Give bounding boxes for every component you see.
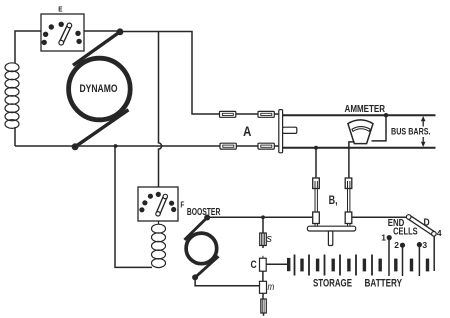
- fuse on bottom feeder 1: [220, 143, 236, 149]
- svg-text:C: C: [251, 259, 257, 271]
- wire from top-left corner to field rheostat E: [15, 31, 41, 63]
- storage battery: [289, 255, 428, 276]
- end cell tap 4: [433, 236, 435, 271]
- wire fuse C to storage battery: [266, 263, 288, 265]
- booster feeder wire right segment to end-cell switch: [352, 216, 406, 218]
- fuse B left lower: [313, 212, 320, 226]
- svg-text:BUS BARS.: BUS BARS.: [391, 127, 431, 137]
- wire top run: junction to corner, down and right to switch A: [120, 32, 282, 115]
- booster top brush: [184, 218, 207, 240]
- field coil (dynamo shunt field): [5, 63, 19, 129]
- fuse on bottom feeder 2: [258, 143, 274, 149]
- svg-text:m: m: [268, 282, 275, 293]
- svg-text:2: 2: [394, 240, 399, 250]
- wire booster to fuse m: [195, 277, 259, 285]
- wire booster coil return to bottom main wire: [115, 146, 152, 267]
- field rheostat E: [41, 14, 84, 51]
- booster rheostat F: [138, 187, 178, 221]
- wire to booster rheostat with hop over bottom main wire: [159, 32, 162, 188]
- svg-text:A: A: [243, 124, 251, 139]
- end cell tap 1: [387, 235, 392, 276]
- svg-text:AMMETER: AMMETER: [345, 104, 386, 115]
- svg-text:D: D: [424, 217, 430, 228]
- svg-text:3: 3: [422, 240, 427, 250]
- svg-text:4: 4: [437, 228, 442, 238]
- knife switch A bar: [279, 110, 297, 153]
- booster feeder wire left segment: [207, 215, 313, 219]
- fuse on top feeder 1: [220, 111, 236, 117]
- wire ammeter to battery switch (crosses bottom bus): [349, 142, 355, 178]
- svg-text:B,: B,: [329, 195, 338, 207]
- fuse on top feeder 2: [258, 111, 274, 117]
- junction dot dynamo bottom: [72, 143, 79, 150]
- end cell tap 3: [417, 242, 422, 276]
- wire rheostat E to dynamo top junction: [84, 30, 120, 32]
- top bus bar: [282, 114, 436, 116]
- switch B crossbar: [307, 226, 355, 245]
- svg-text:s: s: [266, 233, 272, 245]
- bottom main wire: [15, 145, 282, 147]
- junction dot dynamo top: [117, 28, 124, 35]
- wire bottom bus to switch B left column: [314, 146, 318, 178]
- fuse B right upper: [345, 178, 352, 212]
- fuse B left upper: [313, 178, 320, 212]
- end cell tap 2: [400, 243, 405, 276]
- ammeter: [348, 120, 373, 144]
- svg-text:DYNAMO: DYNAMO: [80, 83, 118, 95]
- junction dot booster bottom: [192, 274, 198, 280]
- junction node at booster branch: [114, 144, 118, 148]
- booster bottom brush: [195, 256, 218, 277]
- svg-text:BOOSTER: BOOSTER: [187, 207, 221, 218]
- dynamo bottom brush: [75, 110, 128, 147]
- fuse s (hanging): [260, 217, 267, 248]
- bottom bus bar: [282, 147, 436, 149]
- svg-text:BATTERY: BATTERY: [365, 277, 403, 289]
- dynamo armature: [69, 58, 131, 120]
- junction dot booster top: [204, 215, 210, 221]
- spare fuse at bottom: [261, 299, 267, 316]
- fuse m: [260, 281, 267, 299]
- wire coil bottom to bottom main wire: [14, 127, 16, 146]
- fuse B right lower: [345, 212, 352, 226]
- svg-text:1: 1: [381, 233, 386, 243]
- wire top bus to ammeter: [372, 113, 389, 141]
- svg-text:E: E: [58, 5, 62, 14]
- bus bars dimension arrows: [421, 116, 426, 147]
- svg-text:F: F: [180, 201, 184, 210]
- svg-text:CELLS: CELLS: [393, 226, 418, 237]
- dynamo top brush: [73, 32, 120, 65]
- booster series coil: [152, 221, 166, 268]
- end cell switch D blade: [406, 215, 436, 236]
- booster machine: [186, 233, 217, 264]
- fuse C: [260, 256, 267, 281]
- svg-text:STORAGE: STORAGE: [313, 277, 352, 289]
